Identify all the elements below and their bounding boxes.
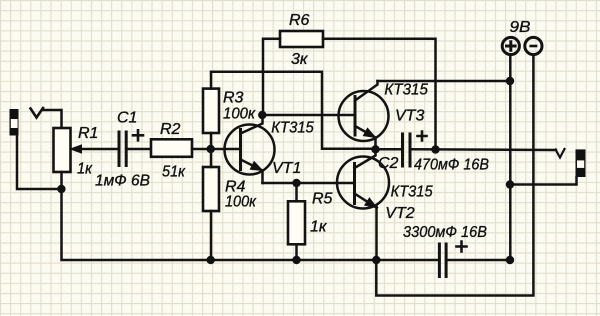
node: VT3 emitter / VT2 collector / C2 left	[371, 145, 379, 153]
wire VT3 collector to +9V	[378, 80, 511, 83]
wire +9V line down	[509, 55, 512, 260]
C2 plus sign	[418, 132, 427, 141]
node: R5 on rail	[292, 256, 300, 264]
svg-text:3300мФ 16В: 3300мФ 16В	[403, 224, 487, 241]
input jack tip arrow	[31, 108, 44, 118]
node: output / R6 right	[431, 145, 439, 153]
svg-text:VT1: VT1	[272, 160, 301, 177]
resistor R2	[151, 139, 192, 157]
node: VT2 emitter on rail	[372, 256, 380, 264]
svg-text:КТ315: КТ315	[391, 184, 433, 201]
resistor R3	[203, 89, 219, 133]
svg-text:1к: 1к	[310, 219, 328, 236]
svg-text:VT3: VT3	[395, 108, 424, 125]
svg-text:VT2: VT2	[385, 205, 414, 222]
svg-text:КТ315: КТ315	[271, 120, 314, 137]
wire R5 bottom	[295, 244, 298, 260]
node: jack sleeve on +V line	[506, 180, 514, 188]
wire R1 bottom to ground rail	[62, 172, 440, 260]
resistor R5	[288, 201, 305, 244]
svg-text:100к: 100к	[223, 106, 256, 123]
svg-text:C2: C2	[378, 155, 399, 172]
node: R1 bottom / jack junction	[57, 185, 65, 193]
wire C1 to R2	[126, 148, 151, 151]
wire R4 top	[210, 149, 213, 167]
wire -9V return line	[376, 55, 533, 296]
wire C2 right to output	[410, 148, 556, 151]
transistor VT1	[225, 125, 275, 175]
svg-text:100к: 100к	[225, 194, 257, 211]
svg-text:1мФ 6В: 1мФ 6В	[95, 173, 150, 190]
wire VT1 emitter to VT2 base	[263, 182, 355, 185]
wire jack sleeve down and right	[17, 136, 61, 190]
transistor VT3	[339, 91, 389, 141]
svg-text:R5: R5	[312, 191, 333, 208]
input jack J1	[10, 109, 19, 136]
R1 wiper arrow	[82, 148, 119, 151]
battery - terminal	[525, 37, 542, 54]
node: VT3 collector on +V	[506, 77, 514, 85]
svg-text:R6: R6	[289, 12, 310, 29]
C1 plus sign	[133, 130, 143, 140]
svg-text:51к: 51к	[162, 164, 186, 181]
wire R3 top bootstrap to VT3 emitter node	[211, 72, 376, 149]
svg-text:3к: 3к	[291, 51, 309, 68]
wire R3 bottom to node	[210, 133, 213, 149]
wire R4 bottom to rail	[210, 211, 213, 260]
wire VT3 base	[262, 114, 355, 117]
wire C3 right to +V node	[446, 259, 510, 262]
wire R6 left to VT1 collector node	[263, 39, 280, 115]
svg-text:C1: C1	[117, 110, 137, 127]
capacitor C3 3300uF on rail	[438, 244, 441, 277]
wire C2 left	[376, 148, 403, 151]
svg-text:1к: 1к	[77, 161, 93, 178]
capacitor C1	[118, 132, 121, 166]
resistor R4	[203, 167, 219, 211]
node: emitter / R5 / VT2 base	[292, 179, 300, 187]
svg-text:R2: R2	[160, 121, 181, 138]
battery + terminal	[502, 37, 519, 54]
wire R2 to VT1 base node	[192, 148, 241, 151]
potentiometer R1	[54, 128, 71, 172]
transistor VT2	[337, 157, 389, 209]
capacitor C2	[401, 134, 404, 166]
svg-text:470мФ 16В: 470мФ 16В	[414, 156, 489, 173]
svg-text:КТ315: КТ315	[384, 81, 428, 98]
C3 plus sign	[457, 242, 467, 252]
output jack tip arrow	[556, 149, 565, 158]
wire R6 right to output node	[323, 39, 436, 150]
wire output jack sleeve	[510, 177, 577, 185]
node: base divider junction	[207, 145, 215, 153]
wire R1 top to jack tip	[43, 110, 62, 128]
resistor R6	[280, 31, 323, 47]
node: VT1 collector / VT3 base / R6 left	[258, 111, 266, 119]
node: R4 on rail	[207, 256, 215, 264]
output jack J2	[576, 149, 586, 177]
svg-text:9В: 9В	[510, 19, 531, 36]
wire R5 top	[295, 183, 298, 201]
node: +V to 3300uF	[506, 256, 514, 264]
svg-text:R3: R3	[223, 90, 244, 107]
svg-text:R1: R1	[78, 125, 98, 142]
